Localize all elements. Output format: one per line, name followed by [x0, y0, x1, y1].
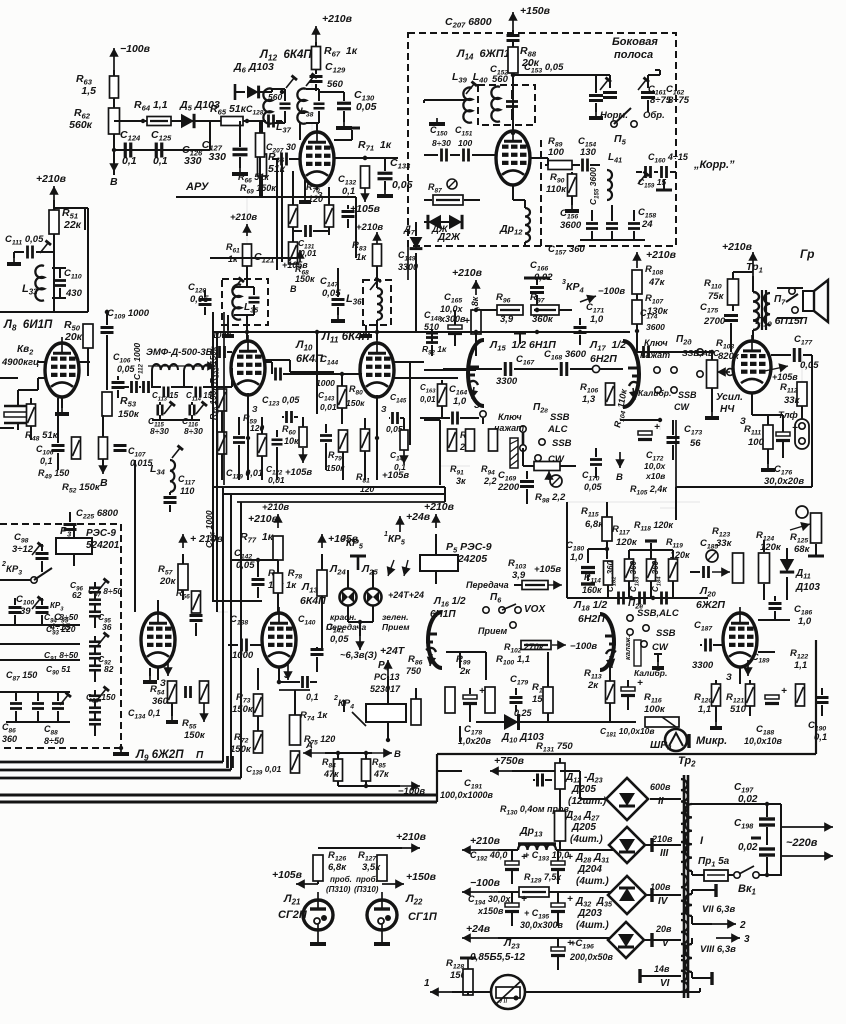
tube L12 6K4P — [300, 132, 334, 186]
svg-text:Д203: Д203 — [577, 908, 602, 919]
electrolytic C195 — [551, 903, 565, 907]
svg-text:В: В — [394, 749, 401, 760]
svg-text:CW: CW — [652, 642, 669, 653]
diode D5 D103 — [181, 114, 194, 128]
resistor R96 3,9 — [497, 305, 523, 315]
wire tank to tube — [311, 84, 313, 89]
svg-text:+150в: +150в — [406, 871, 437, 883]
choke Dr12 — [525, 208, 530, 242]
svg-text:2: 2 — [333, 695, 338, 702]
svg-text:523017: 523017 — [370, 684, 401, 694]
wire y515 stub — [660, 507, 676, 509]
svg-text:+210в: +210в — [262, 502, 289, 513]
capacitor C110 430 — [54, 279, 66, 282]
svg-text:68к: 68к — [794, 544, 811, 555]
svg-text:(П310): (П310) — [326, 885, 351, 894]
wires under L20 — [739, 668, 741, 680]
trimmer L37 — [286, 78, 294, 88]
grid pin L19 — [727, 369, 734, 376]
svg-text:33к: 33к — [716, 538, 733, 549]
capacitor C125 0,1 — [155, 143, 158, 158]
wires around L8 bottom — [38, 361, 45, 363]
svg-text:+: + — [792, 423, 798, 434]
coil L39 — [463, 87, 472, 122]
svg-text:3: 3 — [562, 279, 566, 286]
resistor R72 150k — [254, 731, 263, 753]
wire top row in box — [513, 74, 596, 76]
tube L19 cathode — [751, 393, 753, 415]
svg-text:Гр: Гр — [800, 247, 814, 261]
transformer Tr1 core — [761, 290, 763, 330]
svg-text:+105в: +105в — [350, 203, 381, 215]
svg-text:33к: 33к — [784, 395, 801, 406]
svg-text:0,05: 0,05 — [392, 179, 413, 191]
wire to ARU — [210, 120, 222, 122]
resistor R93 20k — [448, 429, 457, 451]
coil L36 — [377, 288, 382, 320]
resistor R80 150k — [338, 386, 347, 408]
slashed resistor pair — [289, 205, 298, 227]
wires L35 — [246, 274, 248, 287]
svg-text:СГ1П: СГ1П — [408, 911, 438, 923]
svg-text:Прием: Прием — [478, 626, 507, 636]
resistor R66 — [256, 133, 265, 157]
svg-text:Л14 6ЖП1: Л14 6ЖП1 — [456, 48, 510, 62]
svg-text:+210в: +210в — [356, 222, 383, 233]
Tr2 winding VII — [685, 894, 692, 916]
svg-text:+750в: +750в — [494, 755, 525, 767]
wire +210v rail y332 — [212, 331, 630, 333]
switch on secondary — [789, 288, 795, 294]
svg-text:ЭМФ-Д-500-3В: ЭМФ-Д-500-3В — [146, 347, 213, 358]
svg-text:+24Т: +24Т — [380, 645, 406, 657]
resistor R56 150k — [192, 591, 201, 613]
svg-text:8÷30: 8÷30 — [184, 426, 203, 436]
svg-text:0,05: 0,05 — [356, 101, 377, 113]
svg-text:R77 1к: R77 1к — [240, 531, 274, 545]
wire audio bus y370 — [424, 369, 476, 371]
svg-text:1,0: 1,0 — [798, 616, 812, 627]
svg-text:0,1: 0,1 — [153, 155, 168, 167]
resistor R53 150k — [102, 392, 112, 416]
svg-text:+: + — [637, 678, 643, 689]
svg-text:120к: 120к — [616, 537, 638, 548]
wire row y722 — [476, 721, 636, 723]
svg-text:Обр.: Обр. — [643, 110, 665, 121]
svg-text:0,1: 0,1 — [306, 692, 319, 702]
vertical bus x241 — [240, 502, 242, 778]
switch Vk1 — [734, 872, 740, 878]
svg-text:R65 51к: R65 51к — [210, 103, 247, 117]
svg-text:В: В — [290, 284, 297, 294]
svg-text:калаж.: калаж. — [623, 635, 632, 660]
net +210v — [53, 186, 55, 200]
svg-text:Л19 6П15П: Л19 6П15П — [755, 315, 808, 329]
svg-text:560: 560 — [327, 79, 344, 90]
capacitor C153 0,05 — [589, 94, 603, 97]
svg-text:C168 3600: C168 3600 — [544, 349, 587, 362]
coil L40 — [491, 86, 500, 121]
svg-text:+24в: +24в — [466, 923, 491, 935]
wire grid L10 — [231, 368, 233, 387]
net +150v — [512, 12, 514, 30]
capacitor C164 on cathode row — [451, 412, 454, 425]
node 3 contact — [480, 411, 486, 417]
capacitor C131 0,01 — [304, 225, 307, 237]
resistor R88 20k — [508, 47, 518, 73]
svg-text:62: 62 — [72, 590, 82, 600]
svg-text:560: 560 — [268, 92, 282, 102]
screen bypass top right — [334, 139, 352, 141]
svg-text:+: + — [479, 686, 485, 697]
svg-text:VОX: VОX — [524, 604, 546, 615]
svg-text:0,05: 0,05 — [236, 560, 255, 571]
wire +105v rail — [210, 257, 298, 259]
svg-text:1,3: 1,3 — [582, 394, 596, 405]
svg-text:150к: 150к — [295, 274, 315, 284]
net +24v — [399, 516, 401, 532]
svg-text:3,5к: 3,5к — [362, 862, 381, 873]
svg-text:1,0: 1,0 — [453, 396, 467, 407]
svg-text:+105в: +105в — [382, 470, 409, 481]
wires under L10 — [247, 393, 249, 438]
svg-text:+: + — [781, 686, 787, 697]
series caps input — [130, 381, 133, 393]
net B down arrow — [102, 459, 104, 474]
net +105v — [522, 581, 548, 590]
svg-text:1000: 1000 — [232, 650, 254, 661]
svg-text:360к: 360к — [532, 314, 554, 325]
wire R83 to L36 — [376, 266, 378, 288]
net 2 arrow — [691, 916, 693, 924]
grid shield vertical pair — [276, 159, 278, 270]
net +210v — [435, 514, 437, 528]
rail above R117-R119 — [629, 549, 673, 551]
svg-text:З: З — [474, 400, 480, 410]
svg-text:2: 2 — [341, 535, 346, 542]
svg-text:+210в: +210в — [396, 831, 427, 843]
wire y423 row — [424, 419, 440, 421]
wires under L13 — [257, 668, 259, 690]
caps C116 8-30 — [188, 405, 191, 416]
switch P2d contact — [697, 349, 703, 355]
svg-text:Лі: Лі — [499, 996, 507, 1005]
svg-text:750: 750 — [406, 666, 421, 676]
resistor R84 47k — [334, 759, 343, 781]
transformer Tr1 primary — [753, 292, 759, 330]
Tr2 winding II — [681, 779, 688, 824]
net +150v arrow — [382, 883, 404, 885]
svg-text:+105в: +105в — [285, 467, 312, 478]
svg-text:110к: 110к — [546, 184, 567, 195]
svg-text:120: 120 — [360, 484, 374, 494]
svg-text:2к: 2к — [459, 666, 471, 677]
wire vertical x213 — [212, 312, 214, 601]
electrolytic C178 — [463, 695, 477, 699]
svg-text:30,0х20в: 30,0х20в — [764, 476, 804, 487]
svg-text:3600: 3600 — [560, 220, 582, 231]
svg-text:+210в: +210в — [722, 241, 753, 253]
net +210v arrow — [246, 197, 248, 244]
wire right x820 upper — [756, 486, 812, 488]
capacitor C167 3300 — [504, 362, 507, 376]
wire k L15 — [448, 377, 458, 379]
svg-text:160к: 160к — [582, 585, 602, 595]
dashed box L35 — [222, 279, 268, 325]
resistor R66 51k — [258, 154, 267, 176]
resistor R89 100 — [548, 161, 572, 170]
dashed box sideband — [408, 33, 676, 246]
caps row y598 — [617, 592, 620, 605]
svg-text:6Н2П: 6Н2П — [578, 613, 605, 625]
dashed box coils — [478, 85, 535, 125]
svg-text:8÷50: 8÷50 — [44, 736, 64, 746]
wire x316 to L12 — [299, 122, 301, 140]
gas tube L21 — [303, 900, 333, 930]
net +210v — [182, 534, 184, 548]
vertical bus x223 — [222, 487, 224, 762]
wire x660 y420 — [620, 419, 660, 421]
resistor R126 6,8k — [313, 855, 323, 881]
wire cap row — [114, 149, 180, 151]
bridge II — [606, 778, 648, 820]
resistor R65 51k — [221, 117, 243, 126]
resistor R91 3k — [466, 429, 475, 451]
capacitor right of L9 — [190, 614, 203, 617]
capacitor C133 0,05 — [378, 172, 393, 175]
capacitor in tank L38 — [314, 102, 325, 105]
caps C113 15 — [162, 387, 165, 398]
svg-text:1,1: 1,1 — [794, 660, 807, 671]
net 3 arrow — [716, 937, 740, 939]
resistor R62 560k — [109, 108, 120, 134]
resistor R50 20k — [83, 324, 93, 348]
wire plate L11 — [394, 361, 410, 363]
svg-text:210в: 210в — [651, 834, 673, 844]
svg-text:100: 100 — [548, 147, 565, 158]
bridge III — [609, 827, 645, 863]
svg-text:SSB,АLC: SSB,АLC — [637, 608, 679, 619]
left entry wires — [0, 579, 14, 581]
svg-text:1: 1 — [384, 531, 388, 538]
Tr2 winding IV — [681, 874, 688, 914]
wire lamp common — [348, 621, 373, 623]
tube L14 6ZH1P — [496, 131, 530, 185]
trimmer bank 2 — [89, 640, 101, 643]
emf coil right — [184, 364, 212, 370]
wire left stub — [424, 99, 466, 101]
svg-text:150к: 150к — [232, 704, 254, 715]
svg-text:524201: 524201 — [86, 540, 120, 551]
svg-text:(4шт.): (4шт.) — [570, 834, 603, 845]
svg-text:10,0х10в: 10,0х10в — [744, 736, 783, 746]
half tube L17 — [623, 341, 639, 407]
net +210v L13 — [277, 514, 279, 528]
bus wire 5 — [0, 801, 437, 804]
svg-text:~6,3в(З): ~6,3в(З) — [340, 650, 377, 661]
wire column x107 — [87, 348, 89, 376]
svg-text:х10в: х10в — [645, 471, 665, 481]
wire L11 plate up — [410, 361, 424, 363]
svg-text:1,0: 1,0 — [570, 552, 584, 563]
net +210v R108 column — [636, 252, 638, 268]
svg-text:В: В — [110, 176, 118, 188]
svg-text:8÷30: 8÷30 — [432, 138, 451, 148]
diode D10 D103 — [504, 714, 519, 730]
svg-text:47к: 47к — [323, 769, 339, 779]
Tr2 winding VI — [681, 960, 688, 992]
tube L8 6I1P — [45, 343, 79, 397]
svg-text:200,0х50в: 200,0х50в — [569, 952, 614, 962]
svg-text:6,8к: 6,8к — [328, 862, 347, 873]
svg-text:Д103: Д103 — [795, 582, 820, 593]
svg-text:R64 1,1: R64 1,1 — [134, 99, 168, 113]
svg-text:3300: 3300 — [692, 660, 714, 671]
svg-text:зелен.: зелен. — [382, 612, 408, 622]
wire y508 long — [237, 501, 445, 503]
wires audio bus — [659, 420, 661, 430]
tank L38 — [297, 89, 306, 124]
wire L11 outputs — [394, 377, 424, 379]
wire AGC row — [114, 120, 210, 122]
svg-text:0,1: 0,1 — [122, 155, 137, 167]
capacitor C106 0,1 — [52, 444, 65, 447]
svg-text:0,02: 0,02 — [738, 842, 758, 853]
svg-text:10к: 10к — [284, 436, 299, 446]
capacitor C109 1000 — [101, 326, 114, 329]
Tr2 winding V — [681, 920, 688, 956]
wire A-B — [325, 752, 372, 754]
svg-text:1: 1 — [424, 978, 430, 989]
svg-text:(П310): (П310) — [354, 885, 379, 894]
svg-text:+105в: +105в — [272, 869, 303, 881]
wire vertical x217 — [216, 332, 218, 612]
net L36 dashed box — [363, 280, 391, 325]
coil L34 — [170, 460, 175, 492]
Tr2 winding III — [681, 832, 688, 862]
svg-text:АLC: АLC — [547, 424, 568, 435]
grid cap C207 30 — [280, 153, 283, 166]
svg-text:+105в: +105в — [534, 564, 561, 575]
svg-text:З: З — [160, 678, 166, 688]
svg-text:6Ж2П: 6Ж2П — [696, 599, 725, 611]
resistor R74 1k — [290, 715, 301, 745]
electrolytic C188 — [765, 695, 779, 699]
svg-text:1,0х20в: 1,0х20в — [458, 736, 492, 746]
svg-text:Д204: Д204 — [577, 864, 602, 875]
svg-text:1,0: 1,0 — [590, 314, 604, 325]
svg-text:100: 100 — [748, 437, 765, 448]
wires under L9 — [157, 668, 159, 680]
svg-text:3,9: 3,9 — [500, 314, 514, 325]
svg-text:R74 1к: R74 1к — [300, 710, 328, 723]
svg-text:(4шт.): (4шт.) — [576, 920, 609, 931]
electrolytic C176 — [776, 432, 790, 436]
svg-text:6Н2П: 6Н2П — [590, 353, 617, 365]
svg-text:Л16 1/2: Л16 1/2 — [433, 596, 466, 609]
resistor R107 130k — [632, 300, 642, 324]
resistor R79 150k — [339, 430, 348, 452]
svg-text:0,01: 0,01 — [420, 395, 436, 404]
horizontal wire y312 — [0, 311, 88, 313]
svg-text:R131 750: R131 750 — [536, 741, 573, 754]
svg-text:3: 3 — [744, 934, 750, 945]
svg-text:47к: 47к — [373, 769, 389, 779]
svg-text:10,0х: 10,0х — [440, 304, 464, 314]
tank L37 — [263, 89, 272, 124]
wire — [512, 41, 514, 133]
capacitor C130 0,05 — [337, 102, 351, 105]
node B arrow — [113, 158, 115, 172]
svg-text:проб.: проб. — [356, 875, 378, 884]
psu box right edge — [815, 640, 817, 754]
resistor R51 22k — [49, 210, 59, 234]
wire y487 to L19 — [675, 487, 677, 520]
Tr2 winding VIII — [685, 944, 692, 972]
net +24T — [387, 660, 389, 676]
wire y494 — [223, 493, 445, 495]
svg-text:З: З — [252, 404, 258, 414]
svg-text:полоса: полоса — [614, 49, 653, 61]
svg-text:R52 150к: R52 150к — [62, 482, 101, 495]
resistor R64 1,1 — [147, 117, 171, 126]
transformer Tr1 secondary — [764, 293, 770, 325]
svg-text:SSB: SSB — [656, 628, 676, 639]
svg-text:150к: 150к — [184, 730, 206, 741]
net +105v down — [364, 188, 366, 202]
svg-text:100к: 100к — [644, 704, 666, 715]
svg-text:1,5: 1,5 — [81, 85, 96, 97]
resistor R68 under R71 — [361, 166, 370, 188]
net +105v — [302, 448, 304, 463]
svg-text:0,01: 0,01 — [320, 402, 337, 412]
svg-text:SSB: SSB — [550, 412, 570, 423]
svg-text:1000: 1000 — [316, 378, 335, 388]
svg-text:Л17 1/2: Л17 1/2 — [589, 339, 626, 353]
svg-text:430: 430 — [65, 288, 83, 299]
wire — [113, 70, 115, 175]
net +210v arrow — [402, 847, 420, 849]
dashed box left — [0, 523, 121, 525]
svg-text:З: З — [726, 672, 732, 682]
capacitor C127 330 — [233, 148, 248, 151]
dashed divider — [540, 140, 542, 246]
net B arrow — [372, 752, 392, 754]
resistor R102 270k — [521, 641, 551, 650]
wires L20 right — [758, 619, 790, 621]
svg-text:3600: 3600 — [646, 322, 665, 332]
wire R66 — [261, 121, 263, 197]
svg-text:100: 100 — [458, 138, 472, 148]
resistor R83 1k — [373, 244, 382, 266]
svg-text:х150в: х150в — [477, 906, 504, 916]
svg-text:х300в: х300в — [439, 314, 466, 324]
svg-text:Л11 6К4П: Л11 6К4П — [321, 331, 371, 345]
svg-text:3к: 3к — [456, 476, 466, 486]
svg-text:600в: 600в — [650, 782, 671, 792]
vertical bus x231 — [230, 494, 232, 770]
resistor R73 150k — [254, 694, 263, 716]
tube L11 6K4P — [360, 343, 394, 397]
capacitor inside — [506, 100, 518, 103]
net -100v — [337, 781, 339, 786]
net ~220v arrows — [781, 826, 833, 828]
svg-text:150к: 150к — [346, 398, 365, 408]
svg-text:+: + — [654, 422, 660, 433]
plate wire to R71 — [334, 157, 398, 159]
wire x317 vertical — [316, 332, 318, 414]
bridge V — [608, 922, 644, 958]
